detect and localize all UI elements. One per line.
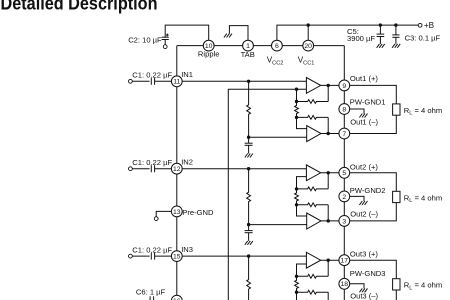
- node feedback divider top: [295, 275, 298, 278]
- svg-text:C1: 0.22 µF: C1: 0.22 µF: [132, 245, 172, 254]
- pin 13 Pre-GND: [171, 206, 182, 217]
- capacitor input filter to ground: [245, 225, 253, 241]
- wire PW-GND1 to chassis: [350, 109, 364, 114]
- svg-text:PW-GND3: PW-GND3: [350, 269, 386, 278]
- wire input IN2: [132, 168, 149, 170]
- wire load top: [350, 260, 397, 279]
- svg-text:6: 6: [275, 43, 279, 50]
- pin 2 PW-GND2: [339, 191, 350, 202]
- svg-text:PW-GND2: PW-GND2: [350, 186, 386, 195]
- pin 12 IN2: [171, 163, 182, 174]
- svg-text:Detailed Description: Detailed Description: [1, 0, 158, 14]
- node C3 rail junction: [394, 23, 397, 26]
- svg-text:11: 11: [173, 79, 180, 86]
- pin 16 C6: [171, 295, 182, 300]
- wire to lower op-amp noninverting input: [249, 136, 307, 138]
- wire lower op-amp inverting input: [297, 292, 307, 300]
- pin 5 Out2 (+): [339, 167, 350, 178]
- op-amp top: [306, 252, 320, 268]
- svg-text:Out1 (+): Out1 (+): [350, 74, 379, 83]
- pin 6 Vcc2: [272, 40, 283, 51]
- ground C5: [377, 44, 385, 48]
- svg-text:IN2: IN2: [181, 157, 193, 166]
- svg-text:3900 µF: 3900 µF: [347, 34, 375, 43]
- pin 8 PW-GND1: [339, 104, 350, 115]
- svg-text:1: 1: [246, 43, 250, 50]
- svg-text:18: 18: [341, 281, 349, 288]
- node Vcc1 rail junction: [307, 23, 310, 26]
- resistor input shunt: [247, 81, 251, 137]
- node feedback divider top: [295, 187, 298, 190]
- svg-text:15: 15: [173, 254, 181, 261]
- wire Vcc1 riser: [307, 25, 309, 40]
- wire bottom op-amp output: [321, 133, 339, 135]
- node RC bottom junction: [247, 223, 250, 226]
- resistor RL load: [393, 191, 400, 202]
- polarity mark C2: [166, 34, 169, 37]
- wire top op-amp output: [321, 172, 339, 174]
- resistor input shunt: [247, 169, 251, 225]
- wire TAB pin 1 to chassis: [229, 26, 248, 41]
- node feedback bottom output junction: [327, 132, 330, 135]
- op-amp bottom: [307, 213, 321, 229]
- node feedback divider bottom: [295, 203, 298, 206]
- wire Pre-GND pin 13 lead: [156, 211, 171, 216]
- svg-text:C1: 0.22 µF: C1: 0.22 µF: [132, 71, 172, 80]
- op-amp top: [306, 78, 320, 94]
- ground PW-GND1: [359, 114, 367, 118]
- svg-text:Ripple: Ripple: [198, 50, 220, 59]
- wire pin 15 to op-amp noninverting input: [182, 255, 306, 257]
- svg-text:Out2 (+): Out2 (+): [350, 162, 379, 171]
- wire load top: [350, 85, 397, 104]
- wire bottom op-amp output: [321, 220, 339, 222]
- wire load bottom: [350, 290, 397, 300]
- node feedback divider top: [295, 100, 298, 103]
- resistor feedback divider: [295, 276, 299, 292]
- svg-text:2: 2: [342, 194, 346, 201]
- capacitor input filter to ground: [245, 137, 253, 153]
- capacitor C3 0.1uF: [392, 25, 399, 44]
- node input RC junction: [247, 254, 250, 257]
- resistor feedback bottom: [297, 290, 329, 300]
- resistor feedback top: [297, 260, 329, 278]
- resistor feedback divider: [295, 189, 299, 205]
- svg-text:3: 3: [342, 218, 346, 225]
- wire +B supply rail: [277, 25, 418, 40]
- capacitor C6 1uF: [150, 296, 154, 300]
- wire input IN1: [132, 80, 149, 82]
- wire lower op-amp inverting input: [297, 117, 307, 128]
- svg-text:PW-GND1: PW-GND1: [350, 97, 386, 106]
- svg-text:Out3 (+): Out3 (+): [350, 249, 379, 258]
- terminal input IN3: [129, 254, 133, 258]
- wire PW-GND2 to chassis: [350, 196, 364, 201]
- terminal Pre-GND: [154, 217, 158, 221]
- node feedback top output junction: [327, 84, 330, 87]
- pin 15 IN3: [171, 251, 182, 262]
- pin 7 Out1 (–): [339, 128, 350, 139]
- resistor feedback bottom: [297, 116, 329, 134]
- wire to lower op-amp noninverting input: [249, 224, 307, 226]
- svg-text:Out2 (–): Out2 (–): [350, 210, 378, 219]
- terminal input IN2: [129, 167, 133, 171]
- resistor feedback bottom: [297, 203, 329, 221]
- wire C1 to pin 12: [155, 168, 172, 170]
- wire C2 lower lead: [164, 40, 166, 45]
- pin 9 Out1 (+): [339, 80, 350, 91]
- wire load top: [350, 173, 397, 192]
- svg-text:IN1: IN1: [181, 70, 193, 79]
- wire lower op-amp inverting input: [297, 205, 307, 216]
- wire load bottom: [350, 203, 397, 221]
- svg-text:5: 5: [342, 170, 346, 177]
- wire top op-amp inverting input: [297, 177, 307, 189]
- svg-text:IN3: IN3: [181, 245, 193, 254]
- wire PW-GND3 to chassis: [350, 284, 364, 289]
- wire pin 12 to op-amp noninverting input: [182, 168, 306, 170]
- capacitor C1 0.22uF IN3: [151, 253, 154, 260]
- op-amp IC U1 body outline: [177, 46, 344, 300]
- terminal input IN1: [129, 79, 133, 83]
- svg-text:12: 12: [173, 166, 181, 173]
- pin 10 Ripple: [203, 40, 214, 51]
- svg-text:C2: 10 µF: C2: 10 µF: [128, 36, 162, 45]
- node input RC junction: [247, 80, 250, 83]
- wire load bottom: [350, 115, 397, 133]
- node RC bottom junction: [247, 136, 250, 139]
- capacitor C1 0.22uF IN2: [151, 165, 154, 172]
- terminal C2 return: [163, 45, 167, 49]
- resistor feedback top: [297, 85, 329, 103]
- op-amp top: [306, 165, 320, 181]
- resistor feedback top: [297, 173, 329, 191]
- op-amp bottom: [307, 126, 321, 142]
- ground C3: [392, 44, 400, 48]
- wire pin 11 to op-amp noninverting input: [182, 80, 306, 82]
- wire top op-amp inverting input: [297, 89, 307, 101]
- svg-text:17: 17: [341, 258, 349, 265]
- wire top op-amp output: [321, 259, 339, 261]
- wire C1 to pin 11: [155, 80, 172, 82]
- pin 3 Out2 (–): [339, 216, 350, 227]
- resistor input shunt: [247, 256, 251, 300]
- svg-text:TAB: TAB: [241, 50, 255, 59]
- pin 20 Vcc1: [303, 40, 314, 51]
- svg-text:Pre-GND: Pre-GND: [182, 208, 214, 217]
- wire input IN3: [132, 255, 149, 257]
- node C5 rail junction: [379, 23, 382, 26]
- label C5 value: [347, 27, 375, 43]
- terminal +B: [418, 23, 422, 27]
- svg-text:13: 13: [173, 209, 181, 216]
- pin 17 Out3 (+): [339, 255, 350, 266]
- svg-text:8: 8: [342, 106, 346, 113]
- pin 1 TAB: [243, 40, 254, 51]
- node feedback return junction: [295, 88, 298, 91]
- wire top op-amp output: [321, 84, 339, 86]
- pin 11 IN1: [171, 76, 182, 87]
- node feedback top output junction: [327, 259, 330, 262]
- resistor RL load: [393, 104, 400, 115]
- svg-text:+B: +B: [424, 21, 435, 30]
- wire top op-amp inverting input: [297, 264, 307, 276]
- node feedback bottom output junction: [327, 219, 330, 222]
- wire ripple rail C2 to pin 10: [165, 25, 209, 40]
- wire C1 to pin 15: [155, 255, 172, 257]
- node input RC junction: [247, 167, 250, 170]
- capacitor C5 3900uF: [377, 25, 385, 44]
- resistor RL load: [393, 279, 400, 290]
- resistor feedback divider: [295, 102, 299, 118]
- node feedback divider bottom: [295, 291, 298, 294]
- svg-text:7: 7: [342, 131, 346, 138]
- svg-text:Out1 (–): Out1 (–): [350, 118, 378, 127]
- node feedback top output junction: [327, 171, 330, 174]
- wire feedback return line: [228, 89, 296, 300]
- svg-text:C1: 0.22 µF: C1: 0.22 µF: [132, 158, 172, 167]
- svg-text:Out3 (–): Out3 (–): [350, 292, 378, 300]
- svg-text:9: 9: [342, 83, 346, 90]
- svg-text:C3: 0.1 µF: C3: 0.1 µF: [405, 33, 441, 42]
- svg-text:C6: 1 µF: C6: 1 µF: [136, 287, 166, 296]
- ground input filter: [245, 154, 253, 158]
- ground PW-GND3: [359, 288, 367, 292]
- capacitor C1 0.22uF IN1: [151, 78, 154, 85]
- node feedback divider bottom: [295, 116, 298, 119]
- svg-text:20: 20: [304, 43, 312, 50]
- capacitor C2 10uF: [162, 37, 169, 39]
- ground PW-GND2: [359, 201, 367, 205]
- ground input filter: [245, 241, 253, 245]
- pin 18 PW-GND3: [339, 278, 350, 289]
- ground TAB: [224, 34, 232, 38]
